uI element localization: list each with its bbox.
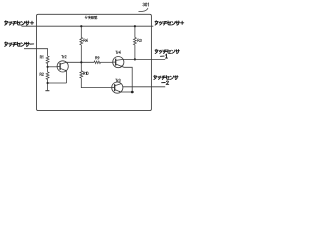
- wire R2 bottom to junction: [47, 79, 49, 90]
- terminal label タッチセンサ-1 (right): [155, 49, 179, 53]
- terminal label タッチセンサ-2 (right): [154, 75, 178, 79]
- label Tr3: [115, 79, 120, 82]
- wire Tr4 emitter elbow down to Tr3 emitter: [122, 67, 132, 92]
- junction node R2 bottom: [47, 82, 49, 84]
- junction node R4/R10: [80, 61, 82, 63]
- junction node Tr3/Tr4 emitters: [131, 91, 134, 94]
- terminal label タッチセンサー (left): [5, 42, 34, 47]
- wire R1 bottom to node A: [47, 64, 49, 73]
- terminal bar below R2: [45, 90, 49, 92]
- wire Tr3 collector / output -2: [123, 86, 166, 88]
- wire R2 junction to Tr2 emitter: [48, 82, 67, 84]
- label Tr2: [61, 55, 66, 58]
- label 分岐回路: [85, 16, 97, 19]
- label R3: [138, 39, 142, 42]
- resistor R10: [80, 71, 83, 78]
- junction node R3 bottom: [134, 58, 136, 60]
- wire R3 branch top: [134, 26, 136, 37]
- transistor Tr4: [113, 57, 124, 68]
- transistor Tr3: [112, 82, 123, 93]
- wire R10 bottom elbow to Tr3 base: [81, 78, 112, 88]
- label R1: [40, 56, 43, 59]
- terminal label タッチセンサ+ (right): [155, 21, 184, 25]
- wire R3 bottom to output node: [134, 45, 136, 60]
- wire Tr4 collector / output -1: [123, 58, 165, 60]
- wire R9 to Tr4 base: [101, 61, 113, 63]
- branch circuit box 分岐回路: [37, 14, 152, 110]
- wire Tr3 emitter line: [121, 91, 134, 93]
- label R2: [40, 73, 44, 76]
- label R4: [84, 39, 88, 42]
- reference numeral 301: [143, 3, 149, 6]
- wire node A to Tr2 base: [48, 66, 58, 68]
- wire Tr2 emitter down: [66, 71, 68, 83]
- resistor R2: [46, 72, 49, 79]
- wire R4 bottom to collector node: [80, 45, 82, 71]
- leader line from 301 to box: [139, 8, 148, 12]
- junction node R4 top: [80, 25, 82, 27]
- terminal label タッチセンサ+ (left): [5, 21, 34, 26]
- resistor R1: [46, 56, 49, 63]
- wire R4 branch top: [80, 26, 82, 37]
- resistor R9: [94, 61, 101, 64]
- junction node R3 top: [134, 25, 136, 27]
- transistor Tr2: [57, 61, 68, 72]
- wire touch sensor + net: [22, 25, 154, 27]
- junction node A: [47, 66, 49, 68]
- label R10: [83, 72, 88, 75]
- wire Tr2 collector to R9: [66, 61, 94, 63]
- resistor R4: [80, 38, 83, 45]
- label Tr4: [116, 51, 121, 54]
- label R9: [96, 56, 100, 59]
- wire touch sensor - lead-in: [24, 49, 48, 56]
- resistor R3: [134, 38, 137, 45]
